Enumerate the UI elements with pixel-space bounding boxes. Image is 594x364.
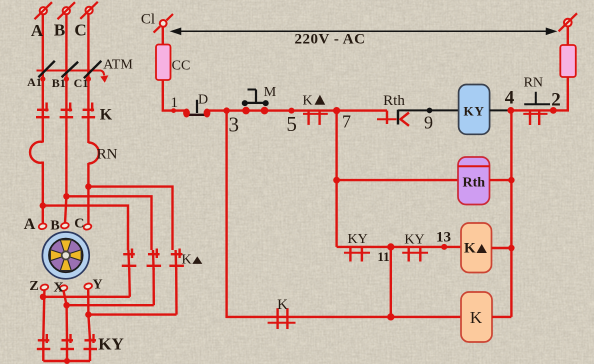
svg-text:K: K xyxy=(277,297,288,313)
wire Z to star branch xyxy=(43,290,44,340)
svg-text:D: D xyxy=(198,93,208,108)
wire star point bar xyxy=(43,360,90,362)
junction node C-row xyxy=(85,183,91,189)
svg-text:C: C xyxy=(74,217,84,232)
junction K-delta rail xyxy=(508,245,514,251)
svg-text:Z: Z xyxy=(29,279,38,294)
junction Rth row right xyxy=(508,177,514,183)
switch Cl xyxy=(154,14,173,33)
wire C-row to delta contact xyxy=(88,187,172,250)
wire X to star branch xyxy=(64,291,68,340)
contact RN NC xyxy=(523,92,550,125)
svg-text:B: B xyxy=(54,20,65,39)
wire Y to star branch xyxy=(88,289,90,340)
svg-text:RN: RN xyxy=(524,76,543,91)
wire fuse to switch right xyxy=(567,26,569,45)
wire Rth to coil KY (black) xyxy=(398,109,459,111)
svg-text:A: A xyxy=(24,216,36,233)
node 4 xyxy=(507,107,514,114)
svg-text:X: X xyxy=(53,281,63,296)
wire node7 vertical xyxy=(335,111,337,247)
breaker ATM arrowhead xyxy=(100,75,108,82)
wire node11 vertical xyxy=(390,247,392,317)
wire phase A lower xyxy=(42,162,44,227)
junction C1 xyxy=(86,76,91,81)
svg-text:KY: KY xyxy=(347,232,367,247)
pushbutton D stop xyxy=(183,100,210,118)
node 5 xyxy=(289,108,295,114)
svg-text:KY: KY xyxy=(98,335,124,354)
contact K control xyxy=(268,308,296,329)
junction node A-row xyxy=(40,202,46,208)
svg-text:KY: KY xyxy=(463,104,485,119)
node 11 xyxy=(387,243,394,250)
motor terminal X xyxy=(59,284,68,291)
contact KY 2 xyxy=(402,247,428,262)
svg-text:2: 2 xyxy=(551,90,561,111)
contact K-delta NC main line xyxy=(303,111,328,125)
junction Rth row left xyxy=(333,177,340,184)
junction Z-row xyxy=(40,294,46,300)
svg-text:B: B xyxy=(50,219,59,234)
contact K phase B xyxy=(60,103,74,118)
wire phase A vertical xyxy=(42,14,44,143)
switch right xyxy=(559,13,577,31)
wire KY row xyxy=(337,246,461,248)
svg-text:K: K xyxy=(182,253,192,268)
thermal element RN phase C xyxy=(88,143,99,164)
svg-text:7: 7 xyxy=(342,112,351,132)
contact K phase A xyxy=(36,103,50,118)
breaker ATM tie bar xyxy=(37,71,105,76)
node 9 xyxy=(427,108,433,114)
motor terminal B xyxy=(60,222,69,229)
wire Rth row right xyxy=(490,179,512,181)
junction X-row xyxy=(63,302,69,308)
svg-text:K: K xyxy=(464,241,476,257)
node 13 xyxy=(441,244,447,250)
wire node7 to Rth contact xyxy=(337,109,387,111)
junction star point xyxy=(64,358,70,364)
motor terminal Y xyxy=(84,283,93,290)
wire fuse to main line xyxy=(163,80,187,111)
wire phase C lower xyxy=(87,163,89,227)
motor terminal A xyxy=(38,223,47,230)
wire delta mid lower xyxy=(152,268,155,305)
svg-text:1: 1 xyxy=(171,95,179,111)
svg-text:Cl: Cl xyxy=(141,12,155,28)
breaker ATM blade B xyxy=(62,62,79,78)
wire Rth row left xyxy=(337,179,458,181)
node 1 xyxy=(171,108,176,113)
svg-text:K: K xyxy=(470,308,483,327)
contact KY star Z xyxy=(37,334,51,361)
label K-delta main xyxy=(302,94,325,109)
svg-text:13: 13 xyxy=(436,230,451,246)
coil KY xyxy=(459,85,490,135)
wire K coil to rail xyxy=(492,316,511,318)
coil Rth xyxy=(458,157,490,205)
svg-text:C1: C1 xyxy=(74,76,89,90)
svg-text:A: A xyxy=(31,21,44,40)
wire delta left lower xyxy=(128,268,131,297)
motor M3 xyxy=(42,232,89,279)
junction node11 bottom xyxy=(387,313,394,320)
fuse CC xyxy=(156,45,171,81)
contact KY star Y xyxy=(84,334,98,361)
wire delta right lower xyxy=(175,268,178,315)
svg-text:A1: A1 xyxy=(27,75,42,89)
wire node3 vertical and K row xyxy=(227,111,461,317)
svg-text:9: 9 xyxy=(424,113,433,133)
coil K xyxy=(461,292,492,342)
svg-text:C: C xyxy=(74,20,86,39)
svg-text:4: 4 xyxy=(505,88,515,109)
svg-text:5: 5 xyxy=(286,112,297,136)
svg-text:ATM: ATM xyxy=(103,58,133,73)
junction Y-row xyxy=(85,311,91,317)
wire D to node3 xyxy=(207,109,265,111)
wire KY to node4 (black) xyxy=(490,109,511,111)
svg-text:Rth: Rth xyxy=(463,176,486,191)
contact K-delta right xyxy=(169,249,184,271)
svg-text:K: K xyxy=(100,107,113,124)
fuse right xyxy=(560,45,576,77)
breaker ATM blade A xyxy=(38,61,54,78)
node 2 xyxy=(550,107,557,114)
contact KY 1 xyxy=(344,247,370,262)
wire right rail vertical xyxy=(510,110,512,317)
motor terminal Z xyxy=(40,284,49,291)
svg-text:RN: RN xyxy=(97,147,118,163)
contact KY star X xyxy=(61,334,75,361)
thermal element RN phase A xyxy=(30,142,43,163)
svg-text:Rth: Rth xyxy=(383,93,405,109)
svg-text:220V - AC: 220V - AC xyxy=(295,32,366,48)
coil K-delta xyxy=(461,223,492,273)
svg-text:K: K xyxy=(302,94,312,109)
svg-text:3: 3 xyxy=(229,113,240,137)
terminal B circle xyxy=(58,2,76,19)
node 7 xyxy=(333,107,340,114)
terminal A circle xyxy=(35,2,53,19)
svg-text:Y: Y xyxy=(92,278,102,293)
node 3 xyxy=(223,107,229,113)
wire Z-row to delta left xyxy=(43,296,130,298)
wire phase C vertical xyxy=(87,14,89,143)
motor terminal C xyxy=(83,223,92,230)
wire Cl to fuse xyxy=(162,27,164,45)
junction A1 xyxy=(40,76,45,81)
svg-text:KY: KY xyxy=(404,233,424,248)
arrow 220V-AC xyxy=(172,29,555,35)
svg-text:CC: CC xyxy=(172,59,191,74)
svg-text:11: 11 xyxy=(377,249,389,264)
svg-text:B1: B1 xyxy=(52,76,66,90)
junction node B-row xyxy=(63,193,69,199)
contact K-delta middle xyxy=(147,249,162,271)
breaker ATM blade C xyxy=(84,61,101,78)
wire node4 to right rail xyxy=(511,77,568,110)
junction B1 xyxy=(64,76,69,81)
wire phase B vertical xyxy=(65,14,67,226)
wire Y-row to delta right xyxy=(88,313,176,315)
wire X-row to delta mid xyxy=(67,304,154,306)
wire K-delta to rail xyxy=(492,247,512,249)
contact K-delta left xyxy=(122,249,137,271)
wire B-row to delta contact xyxy=(66,196,151,250)
terminal C circle xyxy=(80,2,98,19)
contact Rth NC xyxy=(377,110,409,126)
label K-delta left group xyxy=(182,253,203,268)
wire M to contact Kdelta xyxy=(265,109,337,111)
wire A-row to delta contact xyxy=(43,206,128,250)
contact K phase C xyxy=(82,103,96,118)
svg-text:M: M xyxy=(264,85,277,100)
pushbutton M start xyxy=(242,90,269,115)
